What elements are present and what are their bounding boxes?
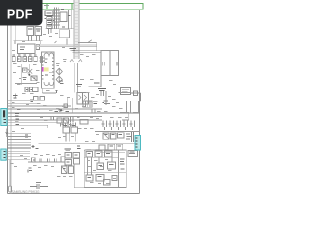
bottom-left wire row <box>28 161 65 163</box>
yellow highlight label <box>44 67 49 71</box>
loop upper wire <box>78 42 97 50</box>
small marks <box>104 101 111 104</box>
capacitor tick row right <box>102 121 135 131</box>
boxes below mid wire right <box>99 144 123 150</box>
comps on lower buses <box>57 118 88 124</box>
capacitor C807 <box>25 87 28 92</box>
junction box on bus <box>64 104 68 108</box>
wire below IC <box>42 88 56 93</box>
node labels dark <box>70 49 77 51</box>
small cap marks <box>23 78 27 80</box>
secondary bridge box <box>77 93 89 105</box>
X marks <box>103 133 109 139</box>
IC801 right pins <box>52 58 54 79</box>
connector CN801 (cyan) <box>1 109 7 126</box>
plus polarity marks <box>13 93 18 98</box>
block wires <box>84 157 126 175</box>
connector CN803 (cyan right) <box>135 136 141 151</box>
R label mark <box>55 41 57 43</box>
diode boxes with X <box>62 166 74 174</box>
lower-left buses <box>8 134 32 145</box>
IC801 bottom winding arcs <box>44 82 54 86</box>
primary snubber loop <box>59 30 69 38</box>
photocoupler PC801 box <box>101 51 119 76</box>
PC801 cell labels <box>103 62 118 66</box>
center cluster upper <box>63 127 78 142</box>
IC801 top winding arcs <box>44 53 54 57</box>
step wire to connector <box>120 112 129 120</box>
wire to frame <box>119 92 131 94</box>
diode D807 (diamond) <box>56 76 62 83</box>
transformer core hatched band <box>74 0 79 59</box>
dark net label <box>59 110 63 112</box>
wire mains <box>13 41 42 44</box>
wire AC line (dark green) <box>40 3 144 10</box>
connector CN802 wires <box>7 151 31 159</box>
cluster near connector <box>126 132 134 142</box>
main output bus (darker) <box>8 112 140 114</box>
main horizontal pair <box>73 51 102 53</box>
connector CN802 (cyan) <box>1 149 6 160</box>
feedback tap outside frame <box>131 91 141 101</box>
regulator box with verticals <box>83 101 92 107</box>
L-wire near frame <box>133 101 139 113</box>
diode D803 (X) <box>28 69 32 74</box>
regulator labels <box>93 102 104 104</box>
input filter box B801 <box>45 11 53 16</box>
bus end labels <box>25 135 28 138</box>
svg-text:SAMSUNG F9/K3G: SAMSUNG F9/K3G <box>12 190 41 194</box>
darker bus line <box>8 147 32 149</box>
label text right <box>76 83 100 86</box>
label text bottom-left cluster <box>65 149 71 151</box>
posistor <box>36 45 39 50</box>
transistor cluster <box>65 153 80 166</box>
comp row above buses <box>34 97 45 101</box>
net label dark <box>98 89 106 91</box>
snubber box right <box>121 88 131 95</box>
resistor R820 <box>32 158 36 162</box>
relay RY801 <box>27 27 42 36</box>
varistor X-box <box>31 76 37 81</box>
wire mid right <box>95 130 140 132</box>
wire <box>15 83 37 85</box>
labels above row 1 <box>87 149 111 151</box>
degauss coil box <box>18 44 36 54</box>
regulator row 2 <box>97 162 116 170</box>
highlighted pin (magenta) <box>42 67 44 72</box>
diode X mark <box>64 118 69 123</box>
vertical feed wires <box>68 98 73 113</box>
dark dashes right of cluster <box>77 146 81 149</box>
winding symbol <box>40 56 46 63</box>
filter winding stack <box>47 17 52 29</box>
electrolytic cap C824 <box>9 186 12 192</box>
vertical link left of block <box>74 164 84 188</box>
component reference label texture <box>10 34 128 184</box>
diamond labels <box>59 81 64 84</box>
dark mini labels dense zones <box>17 10 135 178</box>
resistor R821 <box>61 157 65 162</box>
filter choke winding hatch <box>53 8 60 29</box>
wire below photocoupler <box>89 76 102 87</box>
small component row <box>12 57 37 62</box>
diode D806 (diamond) <box>56 68 62 75</box>
tiny plus marks center <box>32 145 39 149</box>
aux connector box <box>128 151 138 157</box>
output stage block frame <box>84 150 126 188</box>
degauss box label <box>20 47 25 50</box>
resistor R810 diagonal <box>88 40 92 43</box>
wire under badge <box>14 26 16 41</box>
bottom cap label <box>36 182 41 184</box>
wire to cap <box>9 160 11 186</box>
bottom capacitor symbol <box>30 184 48 189</box>
svg-text:PDF: PDF <box>7 7 33 21</box>
top cluster wires <box>44 6 74 35</box>
secondary output buses <box>8 100 103 128</box>
schematic border frame <box>8 10 140 194</box>
wire below right cluster <box>100 151 125 153</box>
regulator row 1 <box>86 151 112 157</box>
junction node <box>28 74 30 76</box>
light horizontal pair <box>35 45 97 46</box>
relay internal labels <box>28 29 41 31</box>
capacitor C809 <box>33 87 38 91</box>
ticks below photocoupler <box>101 91 106 105</box>
tick comps on row <box>40 159 56 163</box>
capacitor C808 <box>30 87 33 92</box>
marks in right cell <box>120 159 125 169</box>
IC801 SMPS controller <box>42 52 54 88</box>
inner margin line <box>10 25 12 194</box>
right cluster above connector <box>103 133 124 140</box>
primary return wires <box>75 63 78 93</box>
wire AC neutral (light green) <box>40 9 144 11</box>
labels above main bus <box>49 110 69 113</box>
cap tick row center-left <box>61 123 76 127</box>
verticals to main bus <box>92 101 130 113</box>
core end arrow marks <box>70 60 82 63</box>
mid wire lower <box>39 142 136 144</box>
small ticks row center <box>51 116 73 122</box>
sense tick <box>56 91 58 93</box>
bridge diode marks <box>79 95 87 100</box>
regulator row 3 <box>86 175 117 186</box>
row labels <box>13 54 37 56</box>
relay pins <box>29 36 40 41</box>
left tick marks <box>28 168 32 173</box>
cluster labels <box>64 125 76 127</box>
IC801 left pins <box>42 58 44 79</box>
left middle: vertical wire <box>21 64 29 85</box>
bus tick labels <box>15 110 21 125</box>
PDF badge <box>0 0 43 26</box>
IC801 pin text <box>45 59 52 72</box>
capacitor CX801 <box>60 12 67 22</box>
wire from loop <box>66 39 68 46</box>
arrow wire at frame <box>6 129 8 138</box>
resistor R803 <box>23 68 28 72</box>
row labels <box>30 100 33 102</box>
